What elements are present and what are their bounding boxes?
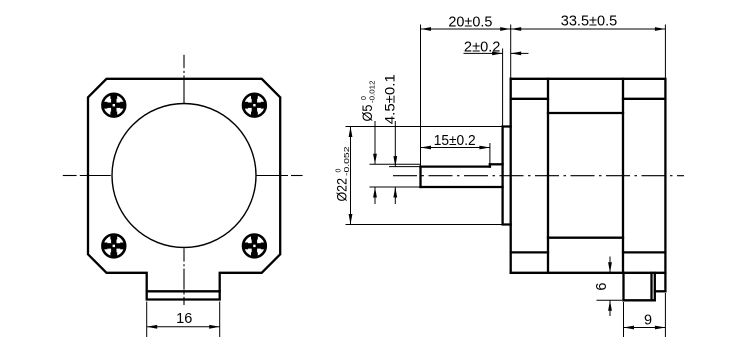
- dimension 15±0.2 line and arrows: [421, 146, 490, 150]
- svg-text:15±0.2: 15±0.2: [434, 133, 476, 149]
- connector tab inner line: [147, 290, 220, 292]
- svg-text:4.5±0.1: 4.5±0.1: [382, 74, 398, 124]
- screw bottom-right: [243, 235, 266, 258]
- side view centerline: [393, 175, 684, 177]
- rear connector block: [624, 273, 666, 301]
- 4.5±0.1 text (rotated): [382, 74, 398, 124]
- extension line at rear face: [664, 25, 666, 79]
- front view body outline with chamfered corners and bottom connector tab: [88, 79, 280, 300]
- Ø22 dimension line and arrows: [349, 127, 353, 225]
- Ø5 dimension extension lines: [370, 164, 421, 187]
- svg-text:0: 0: [361, 96, 368, 100]
- dimension 2±0.2 extension line at boss face: [502, 49, 504, 126]
- svg-text:16: 16: [176, 311, 192, 327]
- svg-text:0: 0: [336, 169, 343, 173]
- svg-text:9: 9: [644, 313, 652, 329]
- vertical centerline bottom: [183, 249, 185, 306]
- extension line at flange face: [510, 25, 512, 79]
- section boundary stator / rear cap: [622, 79, 624, 273]
- svg-text:Ø5: Ø5: [359, 104, 375, 121]
- svg-text:20±0.5: 20±0.5: [448, 14, 492, 30]
- dimension 6 line with outside arrows: [608, 257, 612, 317]
- vertical centerline top: [183, 55, 185, 104]
- dimension 16 extension lines: [147, 302, 220, 338]
- pilot boss: [503, 127, 511, 225]
- dimension 20±0.5 line and arrows: [421, 27, 511, 31]
- side view body outline: [511, 79, 666, 273]
- Ø5 dimension line with outside arrows: [373, 121, 377, 204]
- horizontal centerline left: [63, 175, 111, 177]
- svg-text:6: 6: [594, 283, 610, 291]
- Ø22 0/-0.052 text (rotated): [334, 146, 352, 201]
- side view flange face: [510, 79, 512, 273]
- svg-text:2±0.2: 2±0.2: [464, 39, 501, 55]
- Ø5 0/-0.012 text (rotated): [359, 80, 377, 121]
- front cap chamfer lines: [511, 99, 548, 253]
- dimension 16 line and arrows: [147, 325, 220, 329]
- 4.5±0.1 dimension extension line: [389, 166, 421, 168]
- Ø22 dimension extension lines: [346, 127, 503, 225]
- dimension 2±0.2 leader and arrows: [464, 52, 529, 56]
- dimension 9 extension lines: [624, 293, 666, 337]
- 4.5±0.1 dimension line with outside arrows: [393, 121, 397, 204]
- svg-text:33.5±0.5: 33.5±0.5: [561, 14, 618, 30]
- pilot circle (front face): [112, 104, 256, 248]
- svg-text:-0.052: -0.052: [344, 146, 351, 176]
- svg-text:-0.012: -0.012: [370, 80, 377, 103]
- shaft: [421, 164, 503, 187]
- section boundary front cap / stator: [547, 79, 549, 273]
- dimension 6 extension line: [597, 299, 623, 301]
- screw bottom-left: [102, 235, 125, 258]
- rear cap chamfer lines: [623, 99, 665, 253]
- stator section lines: [548, 113, 623, 238]
- dimension 15±0.2 extension line at flat end: [489, 143, 491, 165]
- dimension 6 text (rotated): [594, 283, 610, 291]
- dimension 20±0.5 extension line at shaft tip: [420, 25, 422, 166]
- screw top-left: [102, 94, 125, 117]
- dimension 9 line and arrows: [624, 326, 666, 330]
- dimension 33.5±0.5 line and arrows: [511, 27, 666, 31]
- horizontal centerline right: [257, 175, 303, 177]
- screw top-right: [243, 94, 266, 117]
- svg-text:Ø22: Ø22: [334, 178, 350, 202]
